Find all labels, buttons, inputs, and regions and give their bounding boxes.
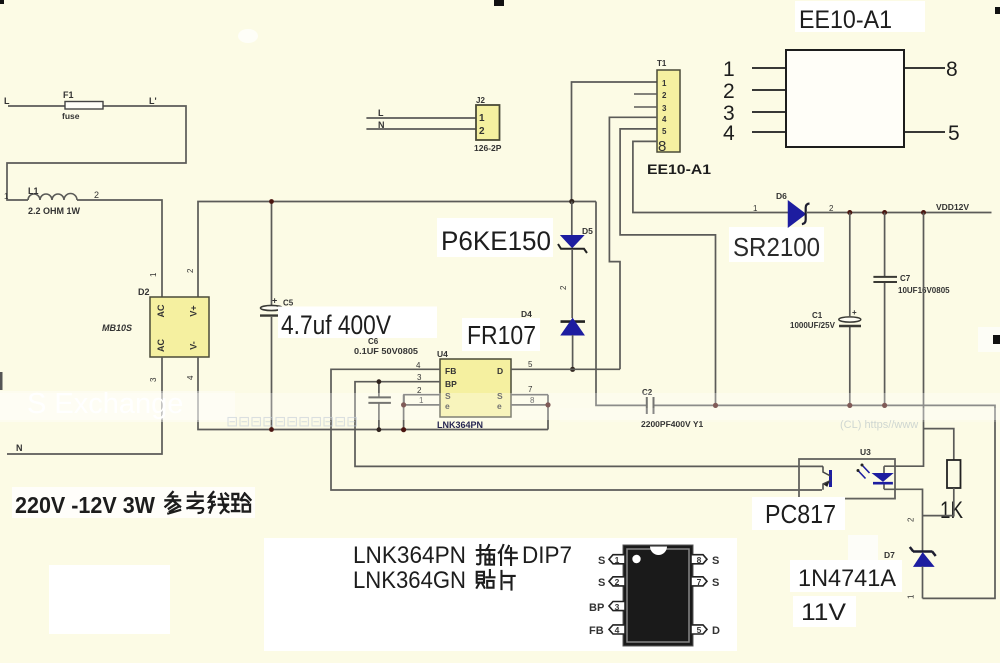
- svg-text:VDD12V: VDD12V: [936, 202, 969, 212]
- white box 220V line: [12, 487, 255, 518]
- svg-text:2: 2: [907, 517, 916, 522]
- capacitor C1 1000UF/25V: [849, 213, 851, 406]
- bridge rectifier D2 MB10S: [150, 297, 209, 357]
- connector J2: [366, 118, 476, 129]
- svg-text:4: 4: [662, 115, 667, 124]
- junction C6 ground: [377, 427, 382, 432]
- opto led arrows: [858, 465, 870, 479]
- svg-text:3: 3: [149, 377, 158, 382]
- capacitor C6 0.1UF: [378, 382, 380, 430]
- T1 pin8 wire to D6: [633, 141, 789, 212]
- T1 pin4 wire to drain net: [609, 117, 657, 369]
- secondary ground wire with C2: [655, 405, 996, 598]
- svg-text:D7: D7: [884, 550, 895, 560]
- EE10-A1 pinout title: [795, 1, 925, 32]
- svg-text:FB: FB: [445, 366, 456, 376]
- T1 pin2 stub: [634, 93, 657, 95]
- svg-text:11V: 11V: [801, 599, 846, 626]
- opto LED: [883, 466, 885, 489]
- svg-text:7: 7: [697, 577, 702, 587]
- DIP pin 7: [691, 577, 707, 586]
- wire rail down to C2: [596, 202, 646, 406]
- svg-text:U3: U3: [860, 447, 871, 457]
- DIP pin1 dot: [632, 555, 640, 563]
- capacitor C5 4.7uf 400V: [271, 202, 273, 430]
- junction VDD rail C1: [847, 210, 852, 215]
- svg-text:S: S: [712, 577, 719, 589]
- pinout pin 5: [904, 131, 945, 133]
- junction C7 on ground wire: [882, 403, 887, 408]
- svg-text:J2: J2: [476, 96, 485, 105]
- junction C5 top: [269, 199, 274, 204]
- junction C1 on ground wire: [847, 403, 852, 408]
- fuse F1: [65, 102, 103, 110]
- svg-text:3: 3: [662, 104, 667, 113]
- svg-text:P6KE150: P6KE150: [441, 226, 551, 256]
- svg-text:S: S: [598, 555, 605, 567]
- svg-text:+: +: [272, 296, 277, 306]
- svg-text:L: L: [4, 96, 10, 106]
- diode D6 SR2100: [789, 202, 806, 227]
- svg-text:2: 2: [723, 80, 735, 103]
- svg-text:BP: BP: [589, 602, 604, 614]
- svg-text:D: D: [497, 366, 503, 376]
- svg-text:L1: L1: [28, 186, 39, 196]
- pinout pin 1: [752, 67, 786, 69]
- pinout pin 3: [752, 111, 786, 113]
- U4 pin2 S stub: [404, 395, 440, 405]
- junction pin8: [545, 402, 550, 407]
- wire bridge pin3 to N: [7, 357, 162, 454]
- junction D4 anode on drain wire: [570, 367, 575, 372]
- svg-text:EE10-A1: EE10-A1: [647, 162, 712, 177]
- svg-text:FB: FB: [589, 625, 604, 637]
- svg-text:1: 1: [723, 58, 735, 81]
- wire L1 to bridge pin1: [77, 200, 162, 297]
- svg-text:2: 2: [662, 91, 667, 100]
- svg-text:V+: V+: [189, 305, 199, 316]
- pinout pin 2: [752, 89, 786, 91]
- DIP package body: [623, 545, 693, 646]
- resistor R1 1K: [947, 460, 961, 488]
- pinout pin 4: [752, 131, 786, 133]
- wire VDD to 1K and LED anode: [884, 213, 954, 467]
- white spot top: [238, 29, 258, 43]
- svg-text:S Exchange: S Exchange: [27, 388, 183, 420]
- svg-text:D5: D5: [582, 226, 593, 236]
- svg-text:2.2 OHM 1W: 2.2 OHM 1W: [28, 206, 81, 216]
- white box SR2100: [729, 227, 824, 262]
- white box 4.7uf 400V: [278, 307, 437, 339]
- opto transistor: [829, 470, 832, 487]
- svg-text:C1: C1: [812, 311, 823, 320]
- left edge tick mark: [0, 372, 3, 390]
- svg-text:5: 5: [662, 127, 667, 136]
- DIP pin 4: [609, 625, 625, 634]
- svg-text:1: 1: [907, 594, 916, 599]
- svg-text:220V -12V 3W: 220V -12V 3W: [15, 492, 155, 518]
- EE10-A1 pinout box: [786, 50, 904, 147]
- inductor L1: [28, 194, 77, 201]
- white box P6KE150: [437, 218, 553, 257]
- svg-text:4: 4: [723, 122, 735, 145]
- black mark top middle: [494, 0, 504, 6]
- DIP pin 3: [609, 602, 625, 611]
- watermark band: [0, 393, 1000, 420]
- svg-text:8: 8: [697, 555, 702, 565]
- svg-text:2: 2: [559, 285, 568, 290]
- svg-text:F1: F1: [63, 90, 74, 100]
- Y-capacitor C2: [647, 397, 654, 414]
- svg-text:C6: C6: [368, 337, 379, 346]
- svg-text:S: S: [598, 577, 605, 589]
- svg-text:3: 3: [417, 373, 422, 382]
- white box FR107: [462, 318, 540, 351]
- U4 pin3 BP wire to opto collector: [355, 382, 823, 467]
- svg-text:0.1UF 50V0805: 0.1UF 50V0805: [354, 346, 418, 356]
- svg-text:PC817: PC817: [765, 499, 836, 529]
- white box 11V: [793, 596, 856, 627]
- white patch bottom center: [264, 538, 737, 651]
- wire LED cathode to D7: [884, 488, 954, 551]
- svg-text:DIP7: DIP7: [522, 542, 572, 569]
- U4 pin7 S stub: [511, 394, 548, 396]
- white halo right edge: [978, 327, 1000, 352]
- black mark right edge: [993, 335, 1000, 344]
- DIP notch: [650, 547, 667, 556]
- svg-text:L: L: [378, 108, 384, 118]
- svg-text:D: D: [712, 625, 720, 637]
- svg-text:T1: T1: [657, 59, 667, 68]
- watermark small text left: [228, 418, 356, 426]
- junction VDD rail feedback branch: [921, 210, 926, 215]
- U4 pin1 stub: [404, 395, 440, 430]
- junction pin5 return on ground wire: [713, 403, 718, 408]
- svg-text:1: 1: [149, 272, 158, 277]
- svg-text:5: 5: [948, 122, 960, 145]
- svg-text:S: S: [712, 555, 719, 567]
- svg-text:1K: 1K: [940, 497, 963, 524]
- svg-text:D2: D2: [138, 287, 150, 297]
- svg-text:FR107: FR107: [467, 320, 536, 350]
- svg-text:126-2P: 126-2P: [474, 143, 502, 153]
- junction C5 bottom: [269, 427, 274, 432]
- DIP pin 2: [609, 577, 625, 586]
- svg-text:C7: C7: [900, 274, 911, 283]
- wire T1 pin1 descender to HV rail: [572, 82, 658, 202]
- svg-text:AC: AC: [156, 304, 166, 317]
- white box PC817: [752, 497, 845, 530]
- svg-text:+: +: [852, 308, 857, 317]
- svg-text:1000UF/25V: 1000UF/25V: [790, 321, 836, 330]
- svg-text:4: 4: [615, 625, 620, 635]
- DIP pin 5: [691, 625, 707, 634]
- svg-text:N: N: [16, 443, 23, 453]
- svg-text:fuse: fuse: [62, 111, 80, 121]
- svg-text:BP: BP: [445, 379, 457, 389]
- svg-text:SR2100: SR2100: [733, 232, 820, 262]
- svg-text:LNK364GN: LNK364GN: [353, 567, 466, 594]
- svg-text:D6: D6: [776, 191, 787, 201]
- svg-text:8: 8: [658, 138, 666, 155]
- white patch bottom left: [49, 565, 170, 634]
- pinout pin 8: [904, 67, 945, 69]
- svg-text:(CL) https//www: (CL) https//www: [840, 419, 918, 431]
- svg-text:3: 3: [615, 602, 620, 612]
- junction BP/C6: [377, 379, 382, 384]
- U4 pin4 FB wire to opto emitter: [331, 369, 822, 490]
- svg-text:1: 1: [753, 204, 758, 213]
- svg-text:N: N: [378, 120, 385, 130]
- svg-text:2: 2: [479, 126, 485, 137]
- junction HV rail / T1 pin1 / D5: [569, 199, 574, 204]
- zener diode D7 1N4741A: [910, 547, 936, 556]
- junction pin1: [401, 402, 406, 407]
- svg-text:8: 8: [946, 58, 958, 81]
- DIP pin 1: [609, 555, 625, 564]
- svg-text:4.7uf 400V: 4.7uf 400V: [281, 310, 391, 340]
- svg-text:1: 1: [479, 113, 485, 124]
- wire bridge pin4 to primary ground rail: [198, 357, 548, 430]
- svg-text:1N4741A: 1N4741A: [798, 565, 896, 592]
- svg-text:1: 1: [4, 192, 9, 201]
- junction pin1 bracket to rail: [401, 427, 406, 432]
- svg-text:5: 5: [528, 360, 533, 369]
- junction VDD rail C7: [882, 210, 887, 215]
- svg-text:C5: C5: [283, 299, 294, 308]
- svg-text:2: 2: [94, 190, 99, 200]
- svg-text:4: 4: [186, 375, 195, 380]
- TVS diode D5: [571, 202, 573, 237]
- optocoupler U3 PC817: [799, 459, 895, 499]
- white patch left of D7: [848, 535, 878, 562]
- T1 pin3 stub: [634, 106, 657, 108]
- svg-text:U4: U4: [437, 349, 448, 359]
- svg-text:2: 2: [829, 204, 834, 213]
- black corner mark top-left: [0, 0, 4, 4]
- svg-text:1: 1: [615, 555, 620, 565]
- diode D4 FR107: [561, 320, 586, 323]
- svg-text:LNK364PN: LNK364PN: [437, 420, 483, 430]
- svg-text:V-: V-: [189, 341, 199, 350]
- svg-text:7: 7: [528, 385, 533, 394]
- black mark top right: [995, 7, 1000, 14]
- svg-text:EE10-A1: EE10-A1: [799, 6, 892, 34]
- svg-text:1: 1: [662, 79, 667, 88]
- wire bridge V+ riser to HV rail: [198, 202, 596, 298]
- svg-text:2: 2: [186, 268, 195, 273]
- svg-text:LNK364PN: LNK364PN: [353, 542, 466, 569]
- capacitor C7 10UF16V0805: [884, 213, 886, 406]
- svg-text:AC: AC: [156, 339, 166, 352]
- svg-text:MB10S: MB10S: [102, 323, 132, 333]
- transformer T1: [657, 70, 680, 152]
- svg-text:4: 4: [416, 361, 421, 370]
- U4 pin5 D stub to drain net: [511, 368, 620, 370]
- svg-text:D4: D4: [521, 309, 532, 319]
- wire L input to fuse: [7, 106, 186, 200]
- white box 1N4741A: [790, 560, 902, 592]
- svg-text:5: 5: [697, 625, 702, 635]
- VDD12V rail: [806, 212, 992, 214]
- U4 pin8 stub and bracket: [511, 395, 548, 430]
- svg-text:L': L': [149, 96, 157, 106]
- DIP pin 8: [691, 555, 707, 564]
- T1 pin5 wire to secondary return: [620, 129, 715, 405]
- svg-text:2: 2: [615, 577, 620, 587]
- U4 LNK364PN: [440, 359, 511, 417]
